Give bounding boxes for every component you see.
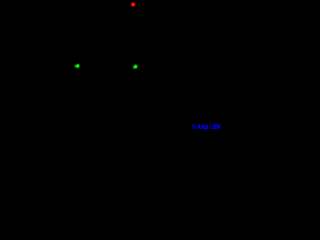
wire middle rail bbox=[77, 65, 135, 67]
battery V1 bbox=[14, 66, 26, 100]
wire top rail bbox=[20, 29, 133, 31]
value label (scale legend) bbox=[192, 122, 221, 131]
wire left rail bbox=[20, 30, 77, 66]
node A (supply post, red) bbox=[131, 3, 135, 7]
wire supply post drop bbox=[132, 4, 134, 30]
wire bottom rail bbox=[20, 99, 185, 101]
ground bbox=[71, 94, 83, 100]
resistor R1 bbox=[130, 30, 136, 56]
capacitor C1 bbox=[71, 66, 83, 94]
wire R1 to node B bbox=[132, 56, 134, 66]
wire right branch bbox=[135, 66, 185, 100]
node B (junction, green) bbox=[75, 64, 80, 68]
node C (junction, green) bbox=[133, 65, 138, 69]
